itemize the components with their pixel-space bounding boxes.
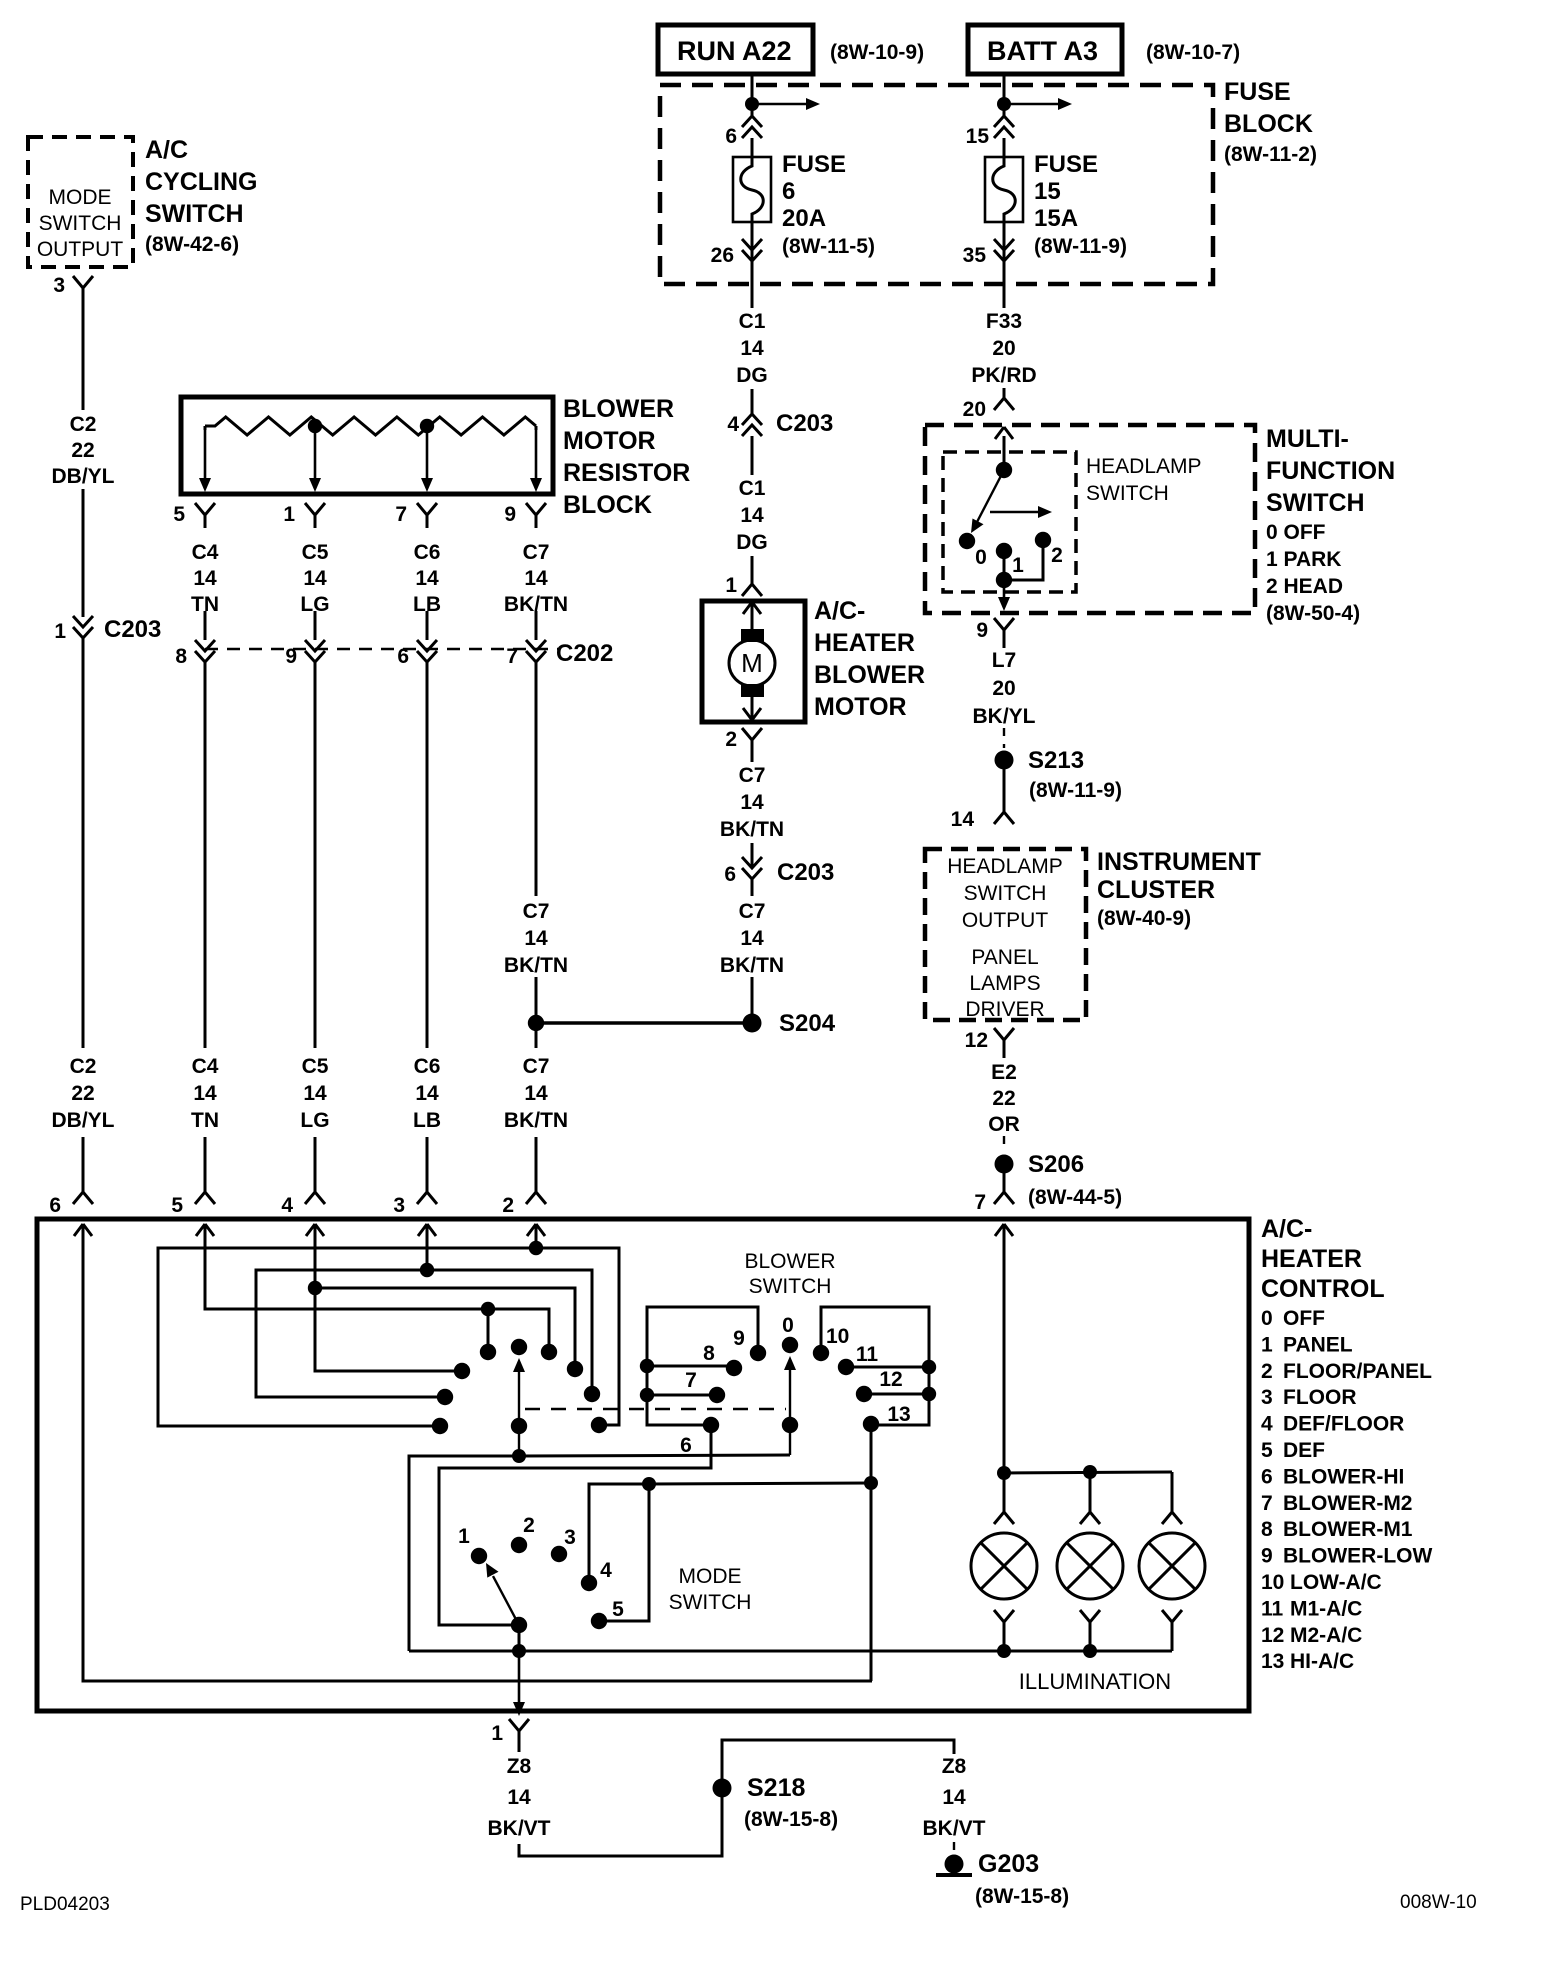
svg-text:SWITCH: SWITCH xyxy=(964,882,1047,905)
resistor block pin 9 connector xyxy=(504,503,546,528)
svg-text:13: 13 xyxy=(887,1403,910,1426)
svg-text:SWITCH: SWITCH xyxy=(1086,482,1169,505)
svg-text:7: 7 xyxy=(974,1191,986,1214)
splice S218 xyxy=(713,1774,839,1831)
mode switch wiper common dot xyxy=(511,1617,527,1633)
blower switch right bracket wire (contacts 10 11 12 13) xyxy=(821,1307,929,1425)
wire C7 from C202 to label xyxy=(535,662,538,896)
svg-text:A/C-: A/C- xyxy=(1261,1215,1312,1243)
svg-text:4: 4 xyxy=(1261,1413,1273,1436)
svg-text:Z8: Z8 xyxy=(507,1755,532,1778)
svg-text:10: 10 xyxy=(826,1325,849,1348)
svg-text:BLOWER: BLOWER xyxy=(563,395,674,423)
headlamp switch wiper arm to position 0 xyxy=(971,470,1004,533)
wire down to lower label stack xyxy=(426,662,429,1048)
component headlamp switch inner dashed box xyxy=(943,452,1076,592)
connector C203 pin 1 (inline, double chevron) xyxy=(54,616,161,643)
wire into A/C-heater control pin 2 xyxy=(535,1137,538,1180)
connector C202 dashed gang line xyxy=(205,648,558,650)
label Z8 14 BK/VT (left) xyxy=(488,1755,551,1840)
svg-text:CYCLING: CYCLING xyxy=(145,168,258,196)
svg-text:BK/TN: BK/TN xyxy=(504,1109,568,1132)
label A/C-HEATER CONTROL legend xyxy=(1261,1215,1432,1673)
wire C7 below motor xyxy=(751,753,754,762)
svg-text:12: 12 xyxy=(879,1368,902,1391)
mode rotary contact dot E (pin3 left) xyxy=(437,1389,453,1405)
label HEADLAMP SWITCH OUTPUT xyxy=(947,855,1063,932)
svg-text:C7: C7 xyxy=(739,764,766,787)
pin 3 connector of cycling switch xyxy=(53,274,93,301)
svg-text:5: 5 xyxy=(173,503,185,526)
svg-text:(8W-11-5): (8W-11-5) xyxy=(782,235,875,258)
junction dot ground return at lamp 2 xyxy=(1083,1644,1097,1658)
svg-text:DB/YL: DB/YL xyxy=(52,465,115,488)
wire pin 3 down to row 1270 xyxy=(426,1224,429,1270)
svg-text:A/C: A/C xyxy=(145,136,188,164)
wire joining S204 splice to C7 column xyxy=(536,1021,752,1025)
headlamp switch contact 2 xyxy=(1035,532,1063,567)
mode rotary top-center contact dot xyxy=(511,1339,527,1355)
svg-text:E2: E2 xyxy=(991,1061,1017,1084)
wire pin 6 to illumination return bus xyxy=(83,1224,872,1681)
resistor tap junction dot at pin 7 column xyxy=(420,419,434,433)
component A/C-heater blower motor box xyxy=(702,601,805,722)
resistor tap wire to pin 1 with arrow xyxy=(309,432,321,492)
svg-text:2: 2 xyxy=(1261,1360,1273,1383)
svg-text:M: M xyxy=(741,648,763,678)
mode switch contact 3 dot xyxy=(551,1526,576,1562)
svg-text:22: 22 xyxy=(992,1087,1015,1110)
svg-text:LG: LG xyxy=(300,1109,329,1132)
svg-text:11: 11 xyxy=(856,1343,879,1366)
svg-text:C6: C6 xyxy=(414,1055,441,1078)
svg-text:DEF: DEF xyxy=(1283,1439,1325,1462)
svg-text:PK/RD: PK/RD xyxy=(971,364,1036,387)
svg-text:C4: C4 xyxy=(192,1055,219,1078)
svg-text:FUSE: FUSE xyxy=(782,151,846,178)
svg-text:14: 14 xyxy=(303,1082,327,1105)
wire lamp feed down to lamp 2 xyxy=(1089,1472,1092,1504)
svg-text:15A: 15A xyxy=(1034,205,1078,232)
wire from Z8 to splice S218 xyxy=(519,1788,722,1856)
label FUSE BLOCK (8W-11-2) xyxy=(1224,78,1317,166)
fuse block internal connector 6 (double chevron up) xyxy=(725,116,762,148)
svg-text:BLOWER-M2: BLOWER-M2 xyxy=(1283,1492,1413,1515)
svg-text:(8W-50-4): (8W-50-4) xyxy=(1266,602,1360,625)
svg-text:20: 20 xyxy=(992,337,1015,360)
wire into fuse 6 xyxy=(751,138,754,160)
blower switch contact 6 dot xyxy=(680,1417,719,1457)
svg-text:S204: S204 xyxy=(779,1010,836,1037)
wire from RUN A22 into fuse block xyxy=(751,74,754,118)
svg-text:0: 0 xyxy=(782,1314,794,1337)
wire into A/C-heater control pin 3 xyxy=(426,1137,429,1180)
svg-text:10: 10 xyxy=(1261,1571,1284,1594)
mode rotary contact dot D (pin4 right) xyxy=(567,1361,583,1377)
svg-text:0: 0 xyxy=(975,546,987,569)
svg-text:C203: C203 xyxy=(776,410,833,437)
wire Z8 below pin 1 xyxy=(518,1744,521,1752)
motor feed wire with entry flare xyxy=(743,601,761,630)
wire into headlamp switch wiper pivot xyxy=(1003,436,1006,470)
svg-text:(8W-10-7): (8W-10-7) xyxy=(1146,41,1240,64)
splice S204 xyxy=(743,1010,836,1037)
connector C203 pin 4 (double chevron up) xyxy=(727,410,833,437)
wire C1 lower segment xyxy=(751,436,754,475)
A/C-heater control pin 1 exit arrow xyxy=(518,1651,521,1704)
svg-text:MOTOR: MOTOR xyxy=(563,427,656,455)
label BLOWER SWITCH xyxy=(744,1250,835,1298)
wire E2 22 OR xyxy=(1003,1053,1006,1058)
svg-text:14: 14 xyxy=(415,567,439,590)
svg-text:HEADLAMP: HEADLAMP xyxy=(1086,455,1202,478)
svg-text:C5: C5 xyxy=(302,541,329,564)
output arrow through multi-function switch box xyxy=(1003,580,1006,599)
svg-text:14: 14 xyxy=(507,1786,531,1809)
svg-text:22: 22 xyxy=(71,1082,94,1105)
svg-text:7: 7 xyxy=(1261,1492,1273,1515)
label FUSE 6 20A (8W-11-5) xyxy=(782,151,875,258)
fuse block internal connector 15 (double chevron up) xyxy=(966,116,1014,148)
ground return line across control box xyxy=(409,1650,1172,1653)
svg-text:BK/VT: BK/VT xyxy=(923,1817,986,1840)
A/C-heater control pin 4 connector xyxy=(281,1180,325,1236)
svg-text:INSTRUMENT: INSTRUMENT xyxy=(1097,848,1261,876)
splice S213 xyxy=(995,747,1122,802)
blower switch contact 0 dot xyxy=(782,1314,798,1353)
wire pin 3 right branch xyxy=(427,1270,592,1387)
illumination lamp 2 (circle with X) xyxy=(1057,1533,1123,1599)
lamp feed line xyxy=(1004,1472,1172,1473)
svg-text:0: 0 xyxy=(1261,1307,1273,1330)
stub pin 5 to mode contact arc left xyxy=(487,1309,490,1347)
resistor block pin 5 connector xyxy=(173,503,215,528)
wire C7 below junction to lower label xyxy=(535,1023,538,1048)
svg-text:F33: F33 xyxy=(986,310,1022,333)
wire down to connector C202 xyxy=(535,611,538,640)
svg-text:9: 9 xyxy=(976,619,988,642)
svg-text:C4: C4 xyxy=(192,541,219,564)
mode rotary contact dot G (pin2 left) xyxy=(432,1418,448,1434)
junction node on BATT feed xyxy=(997,97,1011,111)
svg-text:HEATER: HEATER xyxy=(814,629,915,657)
svg-text:BK/YL: BK/YL xyxy=(973,705,1036,728)
svg-text:(8W-11-2): (8W-11-2) xyxy=(1224,143,1317,166)
svg-text:35: 35 xyxy=(963,244,987,267)
illumination lamp 1 (circle with X) xyxy=(971,1533,1037,1599)
svg-text:(8W-15-8): (8W-15-8) xyxy=(744,1808,838,1831)
svg-text:2: 2 xyxy=(725,728,737,751)
label C7 14 BK/TN (motor output) xyxy=(720,764,784,841)
mode rotary wiper arrow pointing up xyxy=(513,1358,525,1456)
junction dot pin 4 at row 1288 xyxy=(308,1281,322,1295)
svg-text:7: 7 xyxy=(395,503,407,526)
wire from S218 to ground branch xyxy=(722,1740,954,1788)
svg-text:5: 5 xyxy=(171,1194,183,1217)
svg-text:RESISTOR: RESISTOR xyxy=(563,459,690,487)
svg-text:8: 8 xyxy=(1261,1518,1273,1541)
mode rotary contact dot H (pin2 right) xyxy=(591,1417,607,1433)
illumination lamp 3 bottom connector xyxy=(1162,1610,1182,1651)
svg-text:3: 3 xyxy=(53,274,65,297)
svg-text:C7: C7 xyxy=(523,541,550,564)
svg-text:DG: DG xyxy=(736,531,768,554)
resistor block pin 1 connector xyxy=(283,503,325,528)
svg-text:MODE: MODE xyxy=(49,186,112,209)
svg-text:BLOWER-HI: BLOWER-HI xyxy=(1283,1465,1404,1488)
svg-text:3: 3 xyxy=(564,1526,576,1549)
mode rotary contact dot C (pin4 left) xyxy=(454,1363,470,1379)
pin 1 connector below control box xyxy=(491,1719,529,1745)
headlamp switch travel arrow xyxy=(990,511,1040,514)
svg-text:1: 1 xyxy=(725,574,737,597)
svg-text:15: 15 xyxy=(966,125,990,148)
svg-text:7: 7 xyxy=(506,645,518,668)
illumination lamp 3 (circle with X) xyxy=(1139,1533,1205,1599)
resistor element zigzag xyxy=(205,417,536,435)
connector pin 14 into instrument cluster xyxy=(951,800,1014,831)
svg-text:6: 6 xyxy=(49,1194,61,1217)
svg-text:1: 1 xyxy=(458,1525,470,1548)
svg-text:1: 1 xyxy=(283,503,295,526)
wiper feed line to both wipers xyxy=(409,1455,790,1651)
junction dot contact 11 on bracket xyxy=(922,1360,936,1374)
svg-text:9: 9 xyxy=(504,503,516,526)
svg-text:BLOWER-LOW: BLOWER-LOW xyxy=(1283,1545,1432,1568)
illumination lamp 2 top connector xyxy=(1080,1504,1100,1524)
dashed stub to splice S206 xyxy=(1003,1136,1005,1152)
svg-text:14: 14 xyxy=(415,1082,439,1105)
svg-text:HEATER: HEATER xyxy=(1261,1245,1362,1273)
label A/C- HEATER BLOWER MOTOR xyxy=(814,597,925,721)
connector C202 pin 7 (double chevron) xyxy=(506,640,546,668)
instrument cluster pin 12 connector xyxy=(965,1028,1014,1053)
svg-text:FUSE: FUSE xyxy=(1034,151,1098,178)
svg-text:8: 8 xyxy=(703,1342,715,1365)
connector C202 pin 9 (double chevron) xyxy=(285,640,325,668)
svg-text:20A: 20A xyxy=(782,205,826,232)
svg-text:6: 6 xyxy=(725,125,737,148)
wire pin 2 down to row 1248 xyxy=(535,1224,538,1248)
svg-text:(8W-44-5): (8W-44-5) xyxy=(1028,1186,1122,1209)
resistor block pin 7 connector xyxy=(395,503,437,528)
blower switch contact 10 dot xyxy=(813,1325,850,1361)
wire below fuse 15 xyxy=(1003,222,1006,284)
component A/C-heater control box xyxy=(37,1219,1249,1711)
resistor tap wire to pin 9 with arrow xyxy=(530,426,542,492)
svg-text:2: 2 xyxy=(523,1514,535,1537)
dashed stub to ground G203 xyxy=(953,1842,955,1856)
wire down to connector C202 xyxy=(314,611,317,640)
wire into A/C-heater control pin 6 xyxy=(82,1137,85,1180)
svg-text:14: 14 xyxy=(740,927,764,950)
svg-text:FUSE: FUSE xyxy=(1224,78,1291,106)
svg-text:Z8: Z8 xyxy=(942,1755,967,1778)
svg-text:2 HEAD: 2 HEAD xyxy=(1266,575,1343,598)
junction dot contact 8 stub xyxy=(640,1359,654,1373)
label C2 22 DB/YL (lower) xyxy=(52,1055,115,1132)
blower switch wiper arrow pointing up xyxy=(784,1356,796,1455)
label C7 14 BK/TN xyxy=(504,541,568,616)
svg-text:6: 6 xyxy=(397,645,409,668)
svg-text:BATT A3: BATT A3 xyxy=(987,36,1098,66)
svg-text:1: 1 xyxy=(1012,554,1024,577)
connector C203 pin 6 (double chevron down) xyxy=(724,857,834,886)
svg-text:13: 13 xyxy=(1261,1650,1284,1673)
svg-text:PANEL: PANEL xyxy=(971,946,1038,969)
multi-function switch pin 9 connector xyxy=(976,618,1014,643)
label INSTRUMENT CLUSTER (8W-40-9) xyxy=(1097,848,1261,930)
svg-text:BLOWER: BLOWER xyxy=(814,661,925,689)
svg-text:14: 14 xyxy=(740,504,764,527)
connector pin 20 into multi-function switch xyxy=(963,388,1014,439)
motor brush pad top xyxy=(741,629,764,642)
svg-text:1: 1 xyxy=(1261,1333,1273,1356)
junction dot on contact 13 wire at mode feed row xyxy=(864,1476,878,1490)
svg-text:BK/TN: BK/TN xyxy=(720,954,784,977)
wire motor to box bottom with exit flare xyxy=(743,697,761,722)
junction dot on C7 wire at S204 branch xyxy=(528,1015,544,1031)
svg-text:BLOWER: BLOWER xyxy=(744,1250,835,1273)
headlamp switch wiper pivot dot xyxy=(996,462,1012,478)
illumination lamp 3 top connector xyxy=(1162,1504,1182,1524)
wire C7 to splice S204 xyxy=(751,977,754,1023)
wire down to connector C202 xyxy=(426,611,429,640)
svg-text:(8W-42-6): (8W-42-6) xyxy=(145,233,239,256)
svg-text:7: 7 xyxy=(685,1369,697,1392)
blower motor pin 2 connector xyxy=(725,728,762,753)
label C4 14 TN xyxy=(191,541,219,616)
label MODE SWITCH OUTPUT xyxy=(37,186,124,261)
svg-text:MOTOR: MOTOR xyxy=(814,693,907,721)
svg-text:14: 14 xyxy=(303,567,327,590)
junction dot contact 7 stub xyxy=(640,1388,654,1402)
svg-text:BK/TN: BK/TN xyxy=(504,954,568,977)
fuse block output connector 26 (double chevron down) xyxy=(711,239,762,267)
svg-text:OUTPUT: OUTPUT xyxy=(962,909,1049,932)
svg-text:4: 4 xyxy=(600,1559,612,1582)
wire pin 7 to lamp feed xyxy=(1003,1224,1006,1473)
svg-text:PLD04203: PLD04203 xyxy=(20,1894,110,1915)
svg-text:MODE: MODE xyxy=(679,1565,742,1588)
wire from label to connector C203 xyxy=(82,489,85,617)
svg-text:14: 14 xyxy=(740,791,764,814)
component A/C cycling switch (mode switch output) dashed box xyxy=(28,137,133,267)
svg-text:BLOWER-M1: BLOWER-M1 xyxy=(1283,1518,1413,1541)
component multi-function switch outer dashed box xyxy=(925,425,1255,613)
dashed stub to splice S213 xyxy=(1003,728,1005,748)
blower switch contact 12 stub and dot xyxy=(856,1368,929,1402)
svg-text:22: 22 xyxy=(71,439,94,462)
wire from contact 2 to output xyxy=(1004,540,1043,580)
wire down to connector C202 xyxy=(204,611,207,640)
label F33 20 PK/RD xyxy=(971,310,1036,387)
wire into A/C-heater control pin 5 xyxy=(204,1137,207,1180)
svg-text:4: 4 xyxy=(281,1194,293,1217)
svg-text:C202: C202 xyxy=(556,640,613,667)
svg-text:BLOCK: BLOCK xyxy=(563,491,652,519)
svg-text:0 OFF: 0 OFF xyxy=(1266,521,1326,544)
headlamp switch contact 0 xyxy=(959,533,987,569)
svg-text:9: 9 xyxy=(733,1327,745,1350)
svg-text:CLUSTER: CLUSTER xyxy=(1097,876,1215,904)
connector C202 pin 6 (double chevron) xyxy=(397,640,437,668)
label C7 14 BK/TN (center mid) xyxy=(720,900,784,977)
wire pin 5 branch xyxy=(205,1224,549,1347)
svg-text:PANEL: PANEL xyxy=(1283,1333,1353,1356)
blower motor pin 1 connector xyxy=(725,572,762,597)
svg-text:14: 14 xyxy=(942,1786,966,1809)
svg-text:C6: C6 xyxy=(414,541,441,564)
wire down to lower label stack xyxy=(204,662,207,1048)
wire to connector C203 pin 4 xyxy=(751,389,754,414)
wire L7 20 BK/YL xyxy=(1003,643,1006,648)
A/C-heater control pin 7 connector xyxy=(974,1182,1122,1236)
wire C2 below C203 down to lower label xyxy=(82,638,85,1048)
wire C7 to mid label xyxy=(751,879,754,896)
svg-text:DEF/FLOOR: DEF/FLOOR xyxy=(1283,1413,1404,1436)
fuse block output connector 35 (double chevron down) xyxy=(963,239,1014,267)
svg-text:5: 5 xyxy=(1261,1439,1273,1462)
svg-text:C7: C7 xyxy=(739,900,766,923)
wire C1 from fuse block xyxy=(751,284,754,308)
svg-text:OR: OR xyxy=(988,1113,1020,1136)
wire wiper common to ground return line xyxy=(518,1625,521,1651)
svg-text:3: 3 xyxy=(1261,1386,1273,1409)
junction dot ground return at mode wiper xyxy=(512,1644,526,1658)
svg-text:LB: LB xyxy=(413,1109,441,1132)
svg-text:6: 6 xyxy=(1261,1465,1273,1488)
svg-text:3: 3 xyxy=(393,1194,405,1217)
mode rotary contact dot F (pin3 right) xyxy=(584,1386,600,1402)
svg-text:S206: S206 xyxy=(1028,1151,1084,1178)
mode switch contact 5 dot xyxy=(591,1598,624,1629)
illumination lamp 1 bottom connector xyxy=(994,1610,1014,1651)
wire contact 13 to junction and illumination return xyxy=(870,1424,873,1681)
svg-text:14: 14 xyxy=(524,1082,548,1105)
wiper pivot dot on mode rotary xyxy=(511,1418,527,1434)
wire into blower motor pin 1 xyxy=(751,556,754,572)
svg-text:20: 20 xyxy=(992,677,1015,700)
svg-text:DB/YL: DB/YL xyxy=(52,1109,115,1132)
motor symbol M circle xyxy=(729,640,775,686)
svg-text:BK/VT: BK/VT xyxy=(488,1817,551,1840)
headlamp switch contact 1 xyxy=(996,543,1024,577)
label C1 14 DG (lower) xyxy=(736,477,768,554)
svg-text:A/C-: A/C- xyxy=(814,597,865,625)
illumination lamp 1 top connector xyxy=(994,1504,1014,1524)
blower switch contact 7 stub and dot xyxy=(647,1369,725,1403)
svg-text:BLOCK: BLOCK xyxy=(1224,110,1313,138)
headlamp switch output junction dot xyxy=(996,572,1012,588)
wire from contact 1 to output junction xyxy=(1003,551,1006,580)
svg-text:14: 14 xyxy=(524,927,548,950)
junction dot pin 5 branch xyxy=(481,1302,495,1316)
wire pin 2 left branch xyxy=(158,1248,536,1426)
label C1 14 DG xyxy=(736,310,768,387)
A/C-heater control pin 5 connector xyxy=(171,1180,215,1236)
resistor tap wire to pin 5 with arrow xyxy=(199,426,211,492)
wire lamp feed down to lamp 1 xyxy=(1003,1473,1006,1504)
label C5 14 LG xyxy=(300,541,329,616)
svg-text:(8W-10-9): (8W-10-9) xyxy=(830,41,924,64)
svg-text:BK/TN: BK/TN xyxy=(720,818,784,841)
label MULTI-FUNCTION SWITCH legend xyxy=(1266,425,1395,625)
svg-text:OUTPUT: OUTPUT xyxy=(37,238,124,261)
wire F33 from fuse block xyxy=(1003,284,1006,308)
wire mode contacts 4/5 feed row xyxy=(649,1483,871,1484)
A/C-heater control pin 2 connector xyxy=(502,1180,546,1236)
